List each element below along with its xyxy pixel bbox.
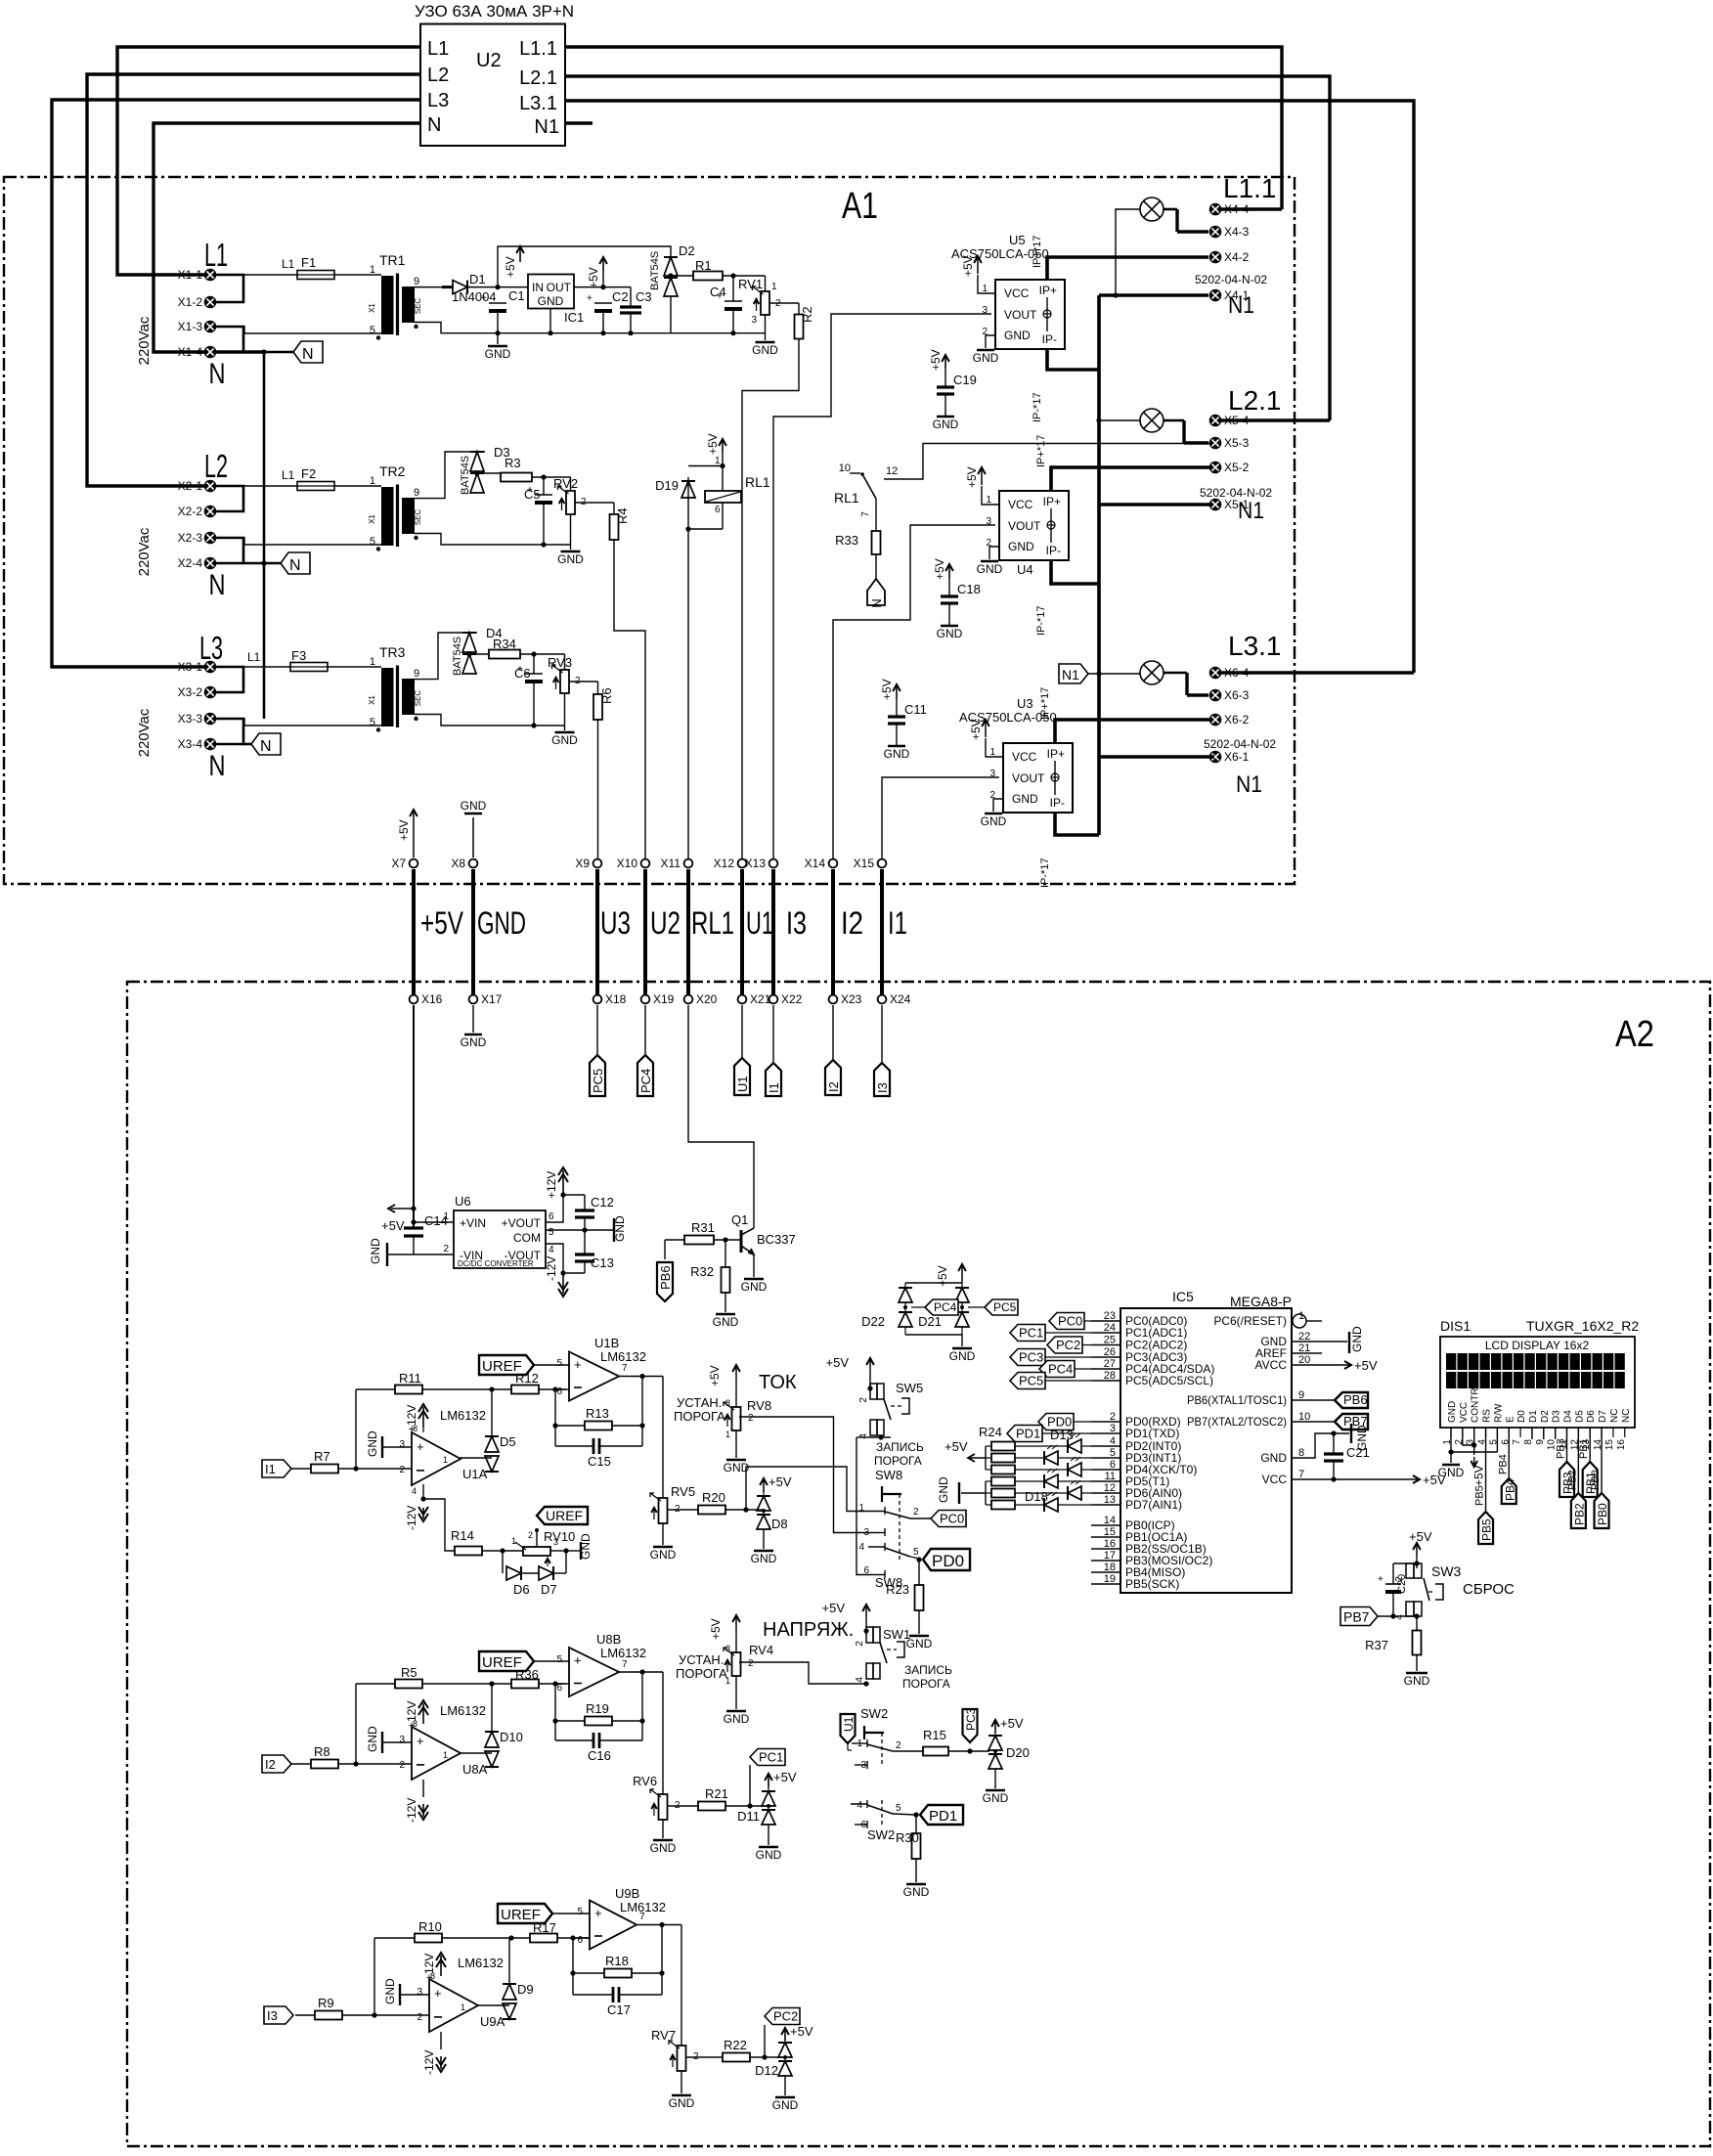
svg-text:1: 1 [461, 2002, 465, 2012]
svg-text:PC2: PC2 [1056, 1338, 1080, 1352]
svg-text:GND: GND [366, 1430, 379, 1457]
svg-text:25: 25 [1104, 1335, 1116, 1346]
svg-text:1: 1 [725, 1430, 730, 1439]
svg-text:8: 8 [413, 1424, 417, 1433]
svg-text:C12: C12 [591, 1195, 614, 1210]
svg-text:5: 5 [577, 1907, 583, 1917]
svg-text:D22: D22 [861, 1314, 885, 1329]
svg-text:C19: C19 [953, 373, 977, 387]
svg-text:D12: D12 [755, 2063, 778, 2078]
svg-text:+VIN: +VIN [460, 1216, 486, 1230]
svg-text:D2: D2 [679, 243, 695, 258]
svg-text:IP+: IP+ [1047, 747, 1065, 761]
svg-text:TR1: TR1 [379, 252, 406, 268]
svg-text:+: + [574, 1653, 582, 1668]
svg-text:X13: X13 [745, 857, 767, 870]
svg-text:GND: GND [903, 1885, 930, 1899]
svg-text:I3: I3 [875, 1082, 890, 1093]
svg-text:3: 3 [982, 305, 988, 316]
svg-text:PD0: PD0 [932, 1552, 964, 1570]
svg-text:R21: R21 [705, 1786, 728, 1801]
svg-text:VCC: VCC [1262, 1473, 1288, 1486]
svg-text:+: + [481, 293, 487, 304]
svg-text:L3: L3 [199, 630, 223, 666]
svg-text:3: 3 [1110, 1423, 1116, 1434]
svg-text:PC0: PC0 [1058, 1314, 1082, 1329]
svg-text:PB4: PB4 [1503, 1478, 1516, 1501]
svg-text:4: 4 [412, 1486, 417, 1496]
svg-text:6: 6 [556, 1386, 562, 1397]
svg-text:1: 1 [715, 456, 721, 466]
svg-text:I3: I3 [786, 905, 807, 941]
svg-text:27: 27 [1104, 1358, 1116, 1370]
svg-text:L1: L1 [427, 38, 449, 60]
svg-text:6: 6 [577, 1935, 583, 1946]
svg-text:GND: GND [752, 343, 778, 357]
svg-text:7: 7 [639, 1912, 645, 1922]
svg-text:5: 5 [549, 1227, 554, 1238]
svg-text:SW2: SW2 [860, 1706, 888, 1721]
svg-text:D18: D18 [1025, 1489, 1048, 1504]
svg-text:D21: D21 [918, 1314, 942, 1329]
svg-text:GND: GND [538, 294, 564, 308]
svg-text:RV6: RV6 [633, 1774, 657, 1788]
svg-text:N: N [209, 358, 226, 390]
svg-text:N1: N1 [1236, 771, 1262, 798]
svg-text:C4: C4 [710, 285, 726, 299]
svg-text:5202-04-N-02: 5202-04-N-02 [1204, 737, 1276, 751]
svg-text:5: 5 [913, 1547, 919, 1558]
svg-text:U1B: U1B [594, 1336, 619, 1350]
svg-text:GND: GND [977, 562, 1003, 576]
svg-text:4: 4 [1110, 1435, 1116, 1447]
svg-text:IP-: IP- [1050, 796, 1065, 810]
svg-text:PC2: PC2 [773, 2009, 798, 2024]
svg-text:1: 1 [771, 282, 777, 292]
svg-text:N: N [869, 598, 884, 607]
svg-text:-12V: -12V [422, 2050, 436, 2075]
svg-text:+12V: +12V [545, 1171, 558, 1199]
svg-text:20: 20 [1298, 1354, 1310, 1366]
svg-text:R11: R11 [399, 1371, 421, 1386]
svg-text:+5V: +5V [929, 349, 943, 371]
svg-text:1: 1 [370, 475, 375, 487]
svg-text:A2: A2 [1615, 1014, 1654, 1055]
svg-text:VCC: VCC [1012, 750, 1037, 764]
svg-text:IP-*17: IP-*17 [1035, 605, 1047, 636]
svg-text:VCC: VCC [1008, 498, 1033, 511]
svg-text:220Vac: 220Vac [136, 527, 153, 576]
svg-text:9: 9 [414, 276, 419, 287]
svg-text:ПОРОГА: ПОРОГА [902, 1677, 950, 1691]
svg-text:L3.1: L3.1 [519, 93, 557, 114]
svg-text:R18: R18 [605, 1954, 629, 1968]
svg-text:IP+: IP+ [1039, 284, 1057, 297]
svg-text:F3: F3 [291, 648, 306, 663]
svg-text:L1: L1 [282, 468, 295, 482]
svg-text:GND: GND [485, 347, 511, 361]
svg-text:PC4: PC4 [1048, 1362, 1073, 1377]
svg-text:X7: X7 [391, 857, 406, 870]
svg-text:5202-04-N-02: 5202-04-N-02 [1195, 273, 1267, 286]
svg-text:24: 24 [1104, 1322, 1116, 1334]
svg-text:1N4004: 1N4004 [452, 289, 497, 304]
svg-text:D19: D19 [655, 478, 679, 493]
svg-text:U3: U3 [600, 905, 631, 941]
svg-text:6: 6 [715, 505, 721, 515]
svg-text:+5V: +5V [420, 905, 463, 941]
svg-text:X14: X14 [805, 857, 826, 870]
svg-text:LCD DISPLAY 16x2: LCD DISPLAY 16x2 [1485, 1339, 1590, 1352]
svg-text:2: 2 [528, 1530, 533, 1540]
svg-text:12: 12 [1104, 1482, 1116, 1494]
svg-text:PC1: PC1 [1019, 1326, 1043, 1341]
svg-text:R22: R22 [724, 2038, 747, 2052]
svg-text:GND: GND [557, 552, 584, 566]
svg-text:7: 7 [860, 511, 871, 517]
svg-text:N: N [260, 738, 272, 755]
svg-text:L1.1: L1.1 [519, 38, 557, 60]
svg-text:3: 3 [399, 1735, 405, 1745]
svg-text:8: 8 [413, 1719, 417, 1729]
svg-text:N: N [302, 346, 314, 363]
svg-text:D20: D20 [1006, 1745, 1030, 1760]
svg-text:RV10: RV10 [544, 1529, 575, 1544]
svg-text:GND: GND [579, 1533, 593, 1560]
svg-text:SW2: SW2 [867, 1827, 895, 1842]
svg-text:RV3: RV3 [548, 655, 572, 670]
svg-text:N: N [289, 557, 301, 574]
svg-text:GND: GND [477, 905, 526, 941]
svg-text:PD1: PD1 [1016, 1427, 1040, 1441]
svg-text:PB7: PB7 [1343, 1609, 1370, 1625]
svg-text:U4: U4 [1017, 562, 1033, 577]
svg-text:E: E [1505, 1416, 1515, 1423]
svg-text:U8A: U8A [462, 1762, 488, 1777]
svg-text:GND: GND [1008, 540, 1034, 553]
svg-text:U3: U3 [1017, 696, 1033, 711]
svg-text:16: 16 [1616, 1439, 1627, 1451]
svg-text:GND: GND [741, 1280, 768, 1294]
svg-text:I2: I2 [826, 1081, 841, 1092]
svg-text:UREF: UREF [482, 1654, 522, 1671]
svg-text:2: 2 [399, 1760, 405, 1771]
svg-text:DC/DC CONVERTER: DC/DC CONVERTER [458, 1259, 534, 1268]
svg-text:4: 4 [858, 1542, 864, 1553]
svg-text:GND: GND [383, 1978, 397, 2004]
svg-text:+5V: +5V [1472, 1465, 1486, 1486]
svg-text:X4-2: X4-2 [1224, 250, 1250, 264]
svg-text:+5V: +5V [880, 679, 894, 700]
svg-text:GND: GND [751, 1552, 777, 1565]
svg-text:2: 2 [399, 1465, 405, 1475]
svg-text:PD7(AIN1): PD7(AIN1) [1125, 1498, 1182, 1512]
svg-text:L2.1: L2.1 [519, 67, 557, 89]
svg-text:X1: X1 [368, 303, 376, 313]
svg-text:X4-3: X4-3 [1224, 225, 1250, 239]
svg-text:1: 1 [443, 1750, 448, 1760]
svg-text:I3: I3 [267, 2008, 278, 2023]
svg-text:+5V: +5V [504, 256, 517, 278]
svg-text:D0: D0 [1516, 1410, 1527, 1423]
svg-text:2: 2 [443, 1244, 449, 1254]
svg-text:RV2: RV2 [553, 476, 578, 491]
svg-text:R3: R3 [505, 456, 521, 470]
svg-text:LM6132: LM6132 [458, 1956, 504, 1970]
svg-text:PB0: PB0 [1590, 1470, 1602, 1490]
svg-text:X21: X21 [750, 992, 771, 1006]
svg-text:21: 21 [1298, 1342, 1310, 1354]
svg-text:1: 1 [370, 264, 375, 276]
svg-text:6: 6 [549, 1211, 554, 1222]
svg-text:X20: X20 [696, 992, 718, 1006]
svg-text:5: 5 [896, 1803, 901, 1814]
svg-text:2: 2 [896, 1740, 901, 1751]
svg-text:220Vac: 220Vac [136, 708, 153, 757]
svg-text:IP-: IP- [1046, 544, 1061, 557]
svg-text:X22: X22 [781, 992, 803, 1006]
svg-text:+5V: +5V [1409, 1529, 1432, 1544]
svg-text:C13: C13 [591, 1255, 614, 1270]
svg-text:U9A: U9A [480, 2014, 505, 2029]
svg-text:C18: C18 [957, 582, 981, 596]
svg-text:D1: D1 [469, 272, 486, 286]
svg-text:2: 2 [748, 1658, 754, 1669]
svg-text:R5: R5 [401, 1665, 417, 1680]
svg-text:U6: U6 [455, 1194, 471, 1209]
svg-text:X9: X9 [575, 857, 590, 870]
svg-text:RL1: RL1 [691, 905, 734, 941]
svg-text:D1: D1 [1528, 1410, 1539, 1423]
svg-text:X6-1: X6-1 [1224, 750, 1250, 764]
svg-text:+: + [574, 1357, 582, 1372]
svg-text:VCC: VCC [1004, 286, 1030, 300]
svg-text:R13: R13 [586, 1406, 609, 1421]
svg-text:L1: L1 [247, 650, 261, 664]
svg-text:D4: D4 [1563, 1410, 1574, 1423]
svg-text:D5: D5 [500, 1434, 516, 1449]
svg-text:УСТАН.: УСТАН. [679, 1652, 724, 1667]
svg-text:УЗО 63А 30мА 3Р+N: УЗО 63А 30мА 3Р+N [415, 2, 574, 21]
svg-text:COM: COM [513, 1231, 541, 1245]
svg-text:RV4: RV4 [749, 1643, 773, 1657]
svg-text:I2: I2 [841, 905, 863, 941]
svg-text:VOUT: VOUT [1012, 771, 1045, 785]
svg-text:RL1: RL1 [834, 490, 859, 506]
svg-text:I1: I1 [767, 1082, 781, 1093]
svg-text:IP-: IP- [1042, 332, 1057, 346]
svg-text:19: 19 [1104, 1573, 1116, 1585]
svg-text:GND: GND [613, 1215, 627, 1242]
svg-text:PC3: PC3 [964, 1707, 978, 1731]
svg-text:1: 1 [443, 1211, 449, 1222]
svg-text:X23: X23 [841, 992, 862, 1006]
svg-text:GND: GND [551, 733, 578, 747]
svg-text:U5: U5 [1009, 233, 1026, 247]
svg-text:9: 9 [1298, 1389, 1304, 1401]
svg-text:IP-*17: IP-*17 [1032, 392, 1043, 422]
svg-text:SW1: SW1 [883, 1627, 910, 1642]
svg-text:PC5: PC5 [1019, 1374, 1043, 1388]
svg-text:9: 9 [1535, 1439, 1546, 1445]
svg-text:IP+*17: IP+*17 [1032, 236, 1043, 268]
svg-text:7: 7 [1298, 1469, 1304, 1480]
svg-text:LM6132: LM6132 [600, 1349, 646, 1364]
svg-text:+5V: +5V [944, 1439, 968, 1454]
svg-text:SEC: SEC [414, 690, 422, 707]
svg-text:C21: C21 [1346, 1445, 1370, 1460]
svg-text:NC: NC [1621, 1409, 1632, 1423]
svg-text:L3: L3 [427, 90, 449, 111]
svg-text:X1-3: X1-3 [178, 320, 203, 333]
svg-text:TR3: TR3 [379, 644, 406, 660]
svg-text:SEC: SEC [414, 509, 422, 526]
svg-text:ТОК: ТОК [759, 1372, 797, 1393]
svg-text:PB2: PB2 [1566, 1470, 1578, 1490]
svg-text:7: 7 [622, 1659, 628, 1670]
svg-text:X5-3: X5-3 [1224, 436, 1250, 450]
svg-text:9: 9 [414, 487, 419, 499]
svg-text:D7: D7 [1598, 1410, 1608, 1423]
svg-text:VOUT: VOUT [1004, 308, 1037, 322]
svg-text:X1-4: X1-4 [178, 345, 203, 359]
svg-text:СБРОС: СБРОС [1463, 1581, 1515, 1598]
svg-text:GND: GND [981, 814, 1007, 828]
svg-text:IN: IN [532, 281, 544, 294]
svg-text:PC3: PC3 [1019, 1350, 1043, 1365]
svg-text:PD1: PD1 [929, 1808, 957, 1825]
svg-text:+: + [594, 1906, 602, 1920]
svg-text:X24: X24 [890, 992, 911, 1006]
svg-text:R2: R2 [800, 306, 814, 323]
svg-text:IC1: IC1 [564, 310, 584, 325]
svg-text:R15: R15 [923, 1728, 946, 1742]
svg-text:R19: R19 [586, 1701, 609, 1716]
svg-text:L2: L2 [427, 65, 449, 86]
svg-text:R9: R9 [318, 1996, 334, 2010]
svg-text:D5: D5 [1574, 1410, 1585, 1423]
svg-text:L3.1: L3.1 [1228, 631, 1282, 661]
svg-text:R10: R10 [418, 1919, 442, 1934]
svg-text:+: + [417, 1439, 424, 1454]
svg-text:+5V: +5V [709, 1618, 723, 1640]
svg-text:IP+*17: IP+*17 [1039, 687, 1051, 720]
svg-text:X1: X1 [368, 514, 376, 524]
svg-text:2: 2 [1110, 1411, 1116, 1423]
svg-text:GND: GND [937, 1476, 950, 1503]
svg-text:IP+*17: IP+*17 [1035, 435, 1047, 467]
svg-text:220Vac: 220Vac [136, 316, 153, 365]
svg-text:+5V: +5V [587, 267, 600, 288]
svg-text:GND: GND [1004, 329, 1031, 342]
svg-text:PB6: PB6 [1343, 1392, 1368, 1407]
svg-text:17: 17 [1104, 1550, 1116, 1562]
svg-text:4: 4 [549, 1245, 554, 1255]
svg-text:4: 4 [855, 1677, 865, 1683]
svg-text:R7: R7 [314, 1449, 330, 1464]
svg-text:PC1: PC1 [759, 1750, 783, 1765]
svg-text:N1: N1 [1062, 667, 1079, 682]
svg-text:D6: D6 [1586, 1410, 1597, 1423]
svg-text:GND: GND [949, 1349, 976, 1363]
svg-text:X11: X11 [661, 857, 681, 870]
svg-text:GND: GND [1404, 1674, 1430, 1688]
svg-text:C11: C11 [904, 702, 927, 717]
svg-text:+5V: +5V [769, 1474, 792, 1489]
svg-text:ПОРОГА: ПОРОГА [674, 1409, 725, 1424]
svg-text:PC0: PC0 [940, 1512, 964, 1526]
svg-text:2: 2 [913, 1507, 919, 1518]
svg-text:BAT54S: BAT54S [452, 637, 463, 676]
svg-text:PB5: PB5 [1480, 1518, 1494, 1541]
svg-text:X3-4: X3-4 [178, 737, 203, 751]
svg-text:6: 6 [1110, 1459, 1116, 1471]
svg-text:N1: N1 [1238, 498, 1264, 524]
svg-text:10: 10 [1298, 1411, 1310, 1423]
svg-text:6: 6 [863, 1565, 869, 1576]
svg-text:UREF: UREF [482, 1358, 522, 1375]
svg-text:3: 3 [863, 1527, 869, 1538]
svg-text:Q1: Q1 [731, 1212, 748, 1227]
svg-text:N: N [427, 114, 441, 136]
svg-text:+5V: +5V [933, 558, 946, 580]
svg-text:N: N [209, 569, 226, 601]
svg-text:L1: L1 [204, 237, 228, 273]
svg-text:GND: GND [650, 1841, 677, 1855]
svg-text:GND: GND [724, 1712, 750, 1726]
svg-text:U1A: U1A [462, 1467, 488, 1481]
svg-text:GND: GND [884, 747, 910, 761]
svg-text:2: 2 [858, 1397, 869, 1403]
svg-text:+VOUT: +VOUT [502, 1216, 542, 1230]
svg-text:X16: X16 [421, 992, 443, 1006]
svg-text:GND: GND [650, 1548, 677, 1562]
svg-text:U1: U1 [735, 1076, 750, 1092]
svg-text:PB1: PB1 [1578, 1438, 1590, 1459]
svg-text:UREF: UREF [546, 1508, 583, 1523]
svg-text:+: + [587, 293, 593, 304]
svg-text:N: N [209, 750, 226, 782]
svg-text:R20: R20 [702, 1490, 725, 1505]
svg-text:5: 5 [556, 1358, 562, 1369]
svg-text:C5: C5 [524, 487, 541, 502]
svg-text:U2: U2 [650, 905, 681, 941]
svg-text:-12V: -12V [545, 1256, 558, 1281]
svg-text:X6-2: X6-2 [1224, 713, 1250, 726]
svg-text:BAT54S: BAT54S [460, 456, 471, 495]
svg-text:2: 2 [417, 2012, 422, 2023]
svg-text:R37: R37 [1365, 1638, 1388, 1652]
svg-text:ПОРОГА: ПОРОГА [874, 1454, 922, 1468]
svg-text:GND: GND [713, 1315, 739, 1329]
svg-text:13: 13 [1104, 1494, 1116, 1506]
svg-text:12: 12 [886, 465, 898, 477]
svg-text:PB6: PB6 [658, 1265, 673, 1290]
svg-text:NC: NC [1609, 1409, 1620, 1423]
svg-text:+5V: +5V [1354, 1358, 1378, 1373]
svg-text:9: 9 [414, 668, 419, 680]
svg-text:C3: C3 [636, 289, 652, 304]
svg-text:PB0: PB0 [1596, 1503, 1609, 1525]
svg-text:I1: I1 [888, 905, 907, 941]
svg-text:D3: D3 [1552, 1410, 1562, 1423]
svg-text:22: 22 [1298, 1331, 1310, 1342]
svg-text:+: + [1378, 1574, 1384, 1585]
svg-text:5: 5 [1110, 1447, 1116, 1459]
svg-text:+5V: +5V [381, 1218, 405, 1233]
svg-text:X2-3: X2-3 [178, 531, 203, 545]
svg-text:LM6132: LM6132 [440, 1703, 486, 1718]
